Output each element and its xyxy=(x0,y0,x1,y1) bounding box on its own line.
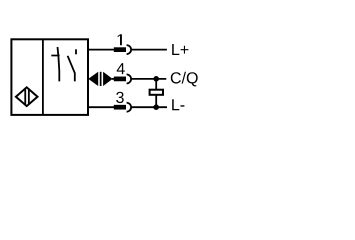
label L+ xyxy=(172,44,188,55)
pin number 1 xyxy=(118,34,122,45)
wire arrow to plug xyxy=(112,78,115,80)
NO contact switch xyxy=(68,49,76,81)
pin 3 plug contact xyxy=(114,105,126,110)
pin 1 socket arc xyxy=(127,45,132,54)
wire pin3 to plug xyxy=(89,106,115,108)
IO-Link bidirectional arrow center bar xyxy=(100,72,102,86)
junction node on L- xyxy=(153,104,159,110)
proximity sensor symbol (diamond) xyxy=(16,85,38,109)
label L- xyxy=(172,99,184,110)
wire to L- xyxy=(132,106,167,108)
pin 1 plug contact xyxy=(114,47,126,52)
IO-Link bidirectional arrow left triangle xyxy=(88,72,98,86)
sensor body outline xyxy=(11,39,88,115)
label C/Q xyxy=(171,72,198,87)
pin number 3 xyxy=(116,92,124,103)
IO-Link bidirectional arrow right triangle xyxy=(103,72,113,86)
resistor (load) xyxy=(150,90,163,95)
pin 4 plug contact xyxy=(114,77,126,82)
NC contact switch xyxy=(51,47,59,81)
pin 3 socket arc xyxy=(127,103,132,112)
wire to C/Q xyxy=(132,78,167,80)
junction node on C/Q xyxy=(153,76,159,82)
wire pin1 to plug xyxy=(89,49,115,51)
vertical branch wire C/Q to L- xyxy=(155,79,157,107)
sensor body divider xyxy=(42,39,44,115)
pin 4 socket arc xyxy=(127,74,132,83)
wire to L+ xyxy=(132,49,167,51)
pin number 4 xyxy=(117,63,125,74)
